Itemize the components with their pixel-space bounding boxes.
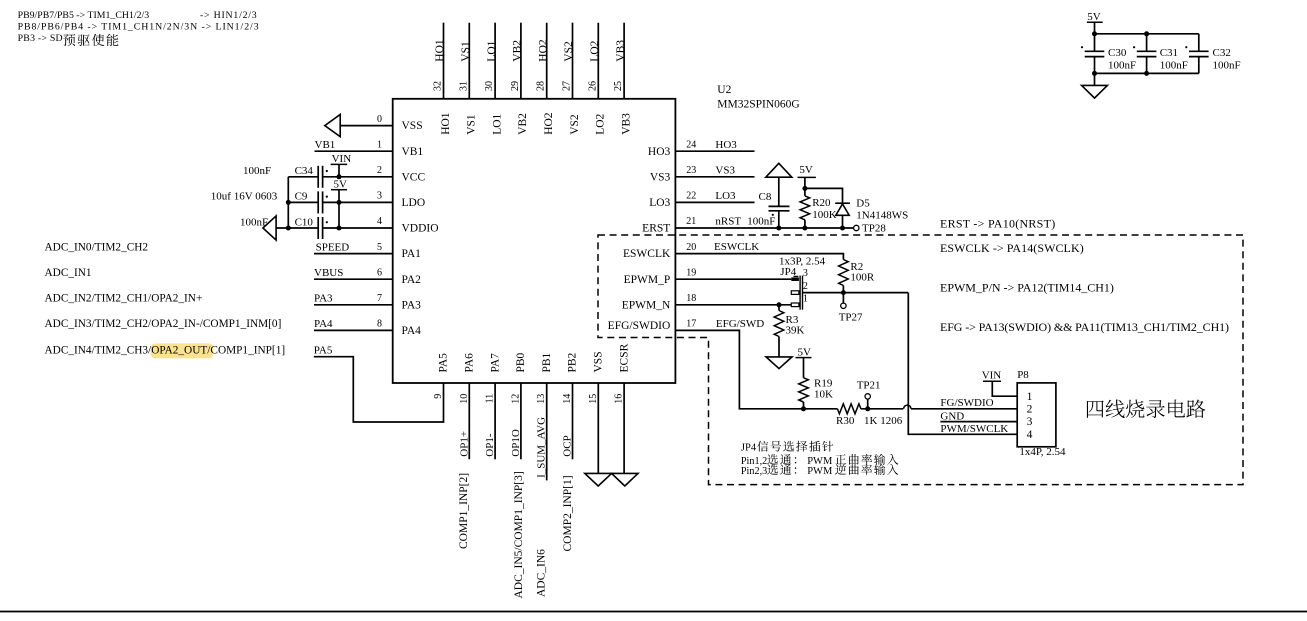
svg-text:VS1: VS1: [466, 114, 478, 135]
svg-text:25: 25: [613, 81, 624, 91]
svg-text:I_SUM_AVG: I_SUM_AVG: [536, 417, 548, 478]
svg-text:PA7: PA7: [489, 353, 501, 373]
svg-text:3: 3: [803, 268, 808, 279]
svg-text:EFG -> PA13(SWDIO) && PA11(TIM: EFG -> PA13(SWDIO) && PA11(TIM13_CH1/TIM…: [940, 320, 1229, 334]
svg-text:ESWCLK -> PA14(SWCLK): ESWCLK -> PA14(SWCLK): [940, 241, 1084, 255]
svg-text:COMP2_INP[1]: COMP2_INP[1]: [562, 475, 574, 551]
svg-text:LO3: LO3: [715, 190, 736, 202]
svg-text:5V: 5V: [798, 346, 812, 358]
svg-text:LO3: LO3: [649, 197, 670, 209]
svg-text:3: 3: [1027, 416, 1033, 428]
svg-text:PA4: PA4: [402, 325, 422, 337]
svg-text:VS2: VS2: [569, 114, 581, 135]
svg-text:ADC_IN1: ADC_IN1: [45, 267, 92, 279]
svg-text:PWM/SWCLK: PWM/SWCLK: [940, 423, 1008, 435]
svg-text:4: 4: [1027, 429, 1033, 441]
svg-text:HO1: HO1: [434, 39, 446, 62]
svg-text:ADC_IN0/TIM2_CH2: ADC_IN0/TIM2_CH2: [45, 241, 149, 253]
svg-text:5V: 5V: [799, 164, 813, 176]
svg-text:15: 15: [588, 394, 599, 404]
svg-text:30: 30: [484, 81, 495, 91]
svg-text:24: 24: [686, 139, 696, 150]
svg-text:29: 29: [510, 81, 521, 91]
svg-text:C32: C32: [1213, 47, 1231, 59]
svg-text:18: 18: [686, 293, 696, 304]
svg-text:PB9/PB7/PB5 -> TIM1_CH1/2/3: PB9/PB7/PB5 -> TIM1_CH1/2/3: [18, 10, 150, 21]
svg-text:FG/SWDIO: FG/SWDIO: [940, 397, 993, 409]
svg-text:R20: R20: [812, 197, 831, 209]
svg-text:LDO: LDO: [402, 197, 426, 209]
svg-text:EPWM_N: EPWM_N: [622, 299, 671, 311]
svg-text:VSS: VSS: [593, 351, 605, 372]
svg-text:ADC_IN3/TIM2_CH2/OPA2_IN-/COMP: ADC_IN3/TIM2_CH2/OPA2_IN-/COMP1_INM[0]: [45, 318, 282, 330]
svg-text:PA4: PA4: [314, 318, 333, 330]
svg-text:0: 0: [377, 114, 382, 125]
svg-text:2: 2: [803, 281, 808, 292]
svg-text:PB0: PB0: [515, 352, 527, 372]
svg-text:JP4: JP4: [780, 266, 796, 278]
svg-text:HO2: HO2: [543, 112, 555, 135]
svg-text:PA6: PA6: [464, 353, 476, 373]
svg-text:PA5: PA5: [314, 345, 333, 357]
svg-text:TP28: TP28: [862, 222, 886, 234]
svg-text:11: 11: [485, 394, 496, 404]
svg-text:OP1+: OP1+: [458, 431, 470, 457]
svg-text:ADC_IN2/TIM2_CH1/OPA2_IN+: ADC_IN2/TIM2_CH1/OPA2_IN+: [45, 293, 203, 305]
svg-text:OP1-: OP1-: [484, 433, 496, 457]
svg-text:TP27: TP27: [839, 312, 863, 324]
svg-text:PB3 -> SD: PB3 -> SD: [18, 33, 63, 44]
svg-text:VIN: VIN: [982, 370, 1002, 382]
svg-text:5: 5: [377, 242, 382, 253]
svg-text:20: 20: [686, 242, 696, 253]
svg-text:100R: 100R: [850, 271, 875, 283]
svg-text:VSS: VSS: [402, 120, 423, 132]
svg-text:21: 21: [686, 216, 696, 227]
svg-text:100nF: 100nF: [243, 165, 271, 177]
svg-text:100nF: 100nF: [1108, 59, 1136, 71]
svg-text:ADC_IN5/COMP1_INP[3]: ADC_IN5/COMP1_INP[3]: [513, 471, 525, 598]
svg-text:HO3: HO3: [715, 139, 737, 151]
svg-text:Pin2,3: Pin2,3: [741, 466, 767, 477]
svg-text:LO2: LO2: [595, 113, 607, 134]
svg-text:ADC_IN6: ADC_IN6: [536, 549, 548, 597]
svg-text:5V: 5V: [334, 178, 348, 190]
svg-text:R30: R30: [836, 415, 855, 427]
svg-text:VB1: VB1: [315, 139, 336, 151]
svg-text:LO1: LO1: [486, 40, 498, 61]
svg-text:C9: C9: [295, 191, 308, 203]
svg-text:C10: C10: [295, 216, 314, 228]
svg-text:VS2: VS2: [563, 41, 575, 62]
svg-text:10: 10: [459, 394, 470, 404]
svg-text:17: 17: [686, 319, 696, 330]
svg-text:PB8/PB6/PB4 -> TIM1_CH1N/2N/3N: PB8/PB6/PB4 -> TIM1_CH1N/2N/3N -> LIN1/2…: [18, 22, 259, 33]
svg-text:PA2: PA2: [402, 274, 422, 286]
svg-text:nRST: nRST: [715, 216, 741, 228]
svg-text:1K 1206: 1K 1206: [864, 415, 903, 427]
svg-text:-> HIN1/2/3: -> HIN1/2/3: [200, 10, 257, 21]
svg-text:C31: C31: [1160, 47, 1178, 59]
svg-text:EFG/SWD: EFG/SWD: [716, 318, 764, 330]
svg-text:ADC_IN4/TIM2_CH3/OPA2_OUT/COMP: ADC_IN4/TIM2_CH3/OPA2_OUT/COMP1_INP[1]: [45, 345, 286, 357]
svg-text:P8: P8: [1017, 369, 1029, 381]
svg-text:TP21: TP21: [857, 379, 881, 391]
svg-text:31: 31: [458, 81, 469, 91]
svg-text:14: 14: [562, 394, 573, 404]
svg-text:27: 27: [562, 81, 573, 91]
svg-text:MM32SPIN060G: MM32SPIN060G: [717, 99, 799, 111]
svg-text:EPWM_P/N -> PA12(TIM14_CH1): EPWM_P/N -> PA12(TIM14_CH1): [940, 281, 1114, 295]
svg-text:HO3: HO3: [648, 146, 671, 158]
svg-text:U2: U2: [717, 84, 731, 96]
svg-text:ERST -> PA10(NRST): ERST -> PA10(NRST): [940, 217, 1055, 231]
svg-text:2: 2: [1027, 404, 1033, 416]
svg-text:100nF: 100nF: [1160, 59, 1188, 71]
svg-text:VB1: VB1: [402, 146, 424, 158]
svg-text:LO2: LO2: [589, 40, 601, 61]
svg-text:PB2: PB2: [567, 352, 579, 372]
svg-text:26: 26: [587, 81, 598, 91]
svg-text:EFG/SWDIO: EFG/SWDIO: [608, 320, 671, 332]
svg-text:1x4P, 2.54: 1x4P, 2.54: [1019, 446, 1066, 458]
svg-text:VS1: VS1: [460, 41, 472, 62]
svg-text:6: 6: [377, 267, 382, 278]
svg-text:VB2: VB2: [512, 40, 524, 62]
svg-text:D5: D5: [856, 198, 870, 210]
svg-text:10K: 10K: [814, 389, 833, 401]
svg-text:EPWM_P: EPWM_P: [624, 274, 671, 286]
svg-text:OP1O: OP1O: [510, 429, 522, 457]
svg-text:12: 12: [510, 394, 521, 404]
svg-text:ECSR: ECSR: [618, 343, 630, 372]
svg-text:C34: C34: [295, 165, 314, 177]
svg-text:VBUS: VBUS: [314, 267, 343, 279]
svg-text:100nF: 100nF: [747, 216, 775, 228]
svg-text:VDDIO: VDDIO: [402, 223, 439, 235]
svg-text:LO1: LO1: [491, 113, 503, 134]
svg-text:100K: 100K: [812, 209, 837, 221]
svg-text:10uf 16V 0603: 10uf 16V 0603: [211, 191, 278, 203]
svg-text:SPEED: SPEED: [316, 241, 350, 253]
svg-text:9: 9: [433, 394, 444, 399]
svg-text:13: 13: [536, 394, 547, 404]
svg-text:1: 1: [1027, 391, 1033, 403]
svg-text:5V: 5V: [1087, 11, 1101, 23]
svg-text:16: 16: [614, 394, 625, 404]
svg-text:VS3: VS3: [650, 171, 671, 183]
svg-text:32: 32: [433, 81, 444, 91]
svg-text:HO2: HO2: [537, 39, 549, 62]
svg-text:1: 1: [377, 139, 382, 150]
svg-text:3: 3: [377, 191, 382, 202]
svg-text:C30: C30: [1108, 47, 1127, 59]
svg-text:PA3: PA3: [402, 299, 422, 311]
svg-text:VB2: VB2: [517, 113, 529, 135]
svg-text:23: 23: [686, 165, 696, 176]
svg-text:28: 28: [536, 81, 547, 91]
svg-text:ESWCLK: ESWCLK: [714, 241, 759, 253]
svg-text:1: 1: [803, 293, 808, 304]
svg-text:100nF: 100nF: [240, 216, 268, 228]
svg-text:22: 22: [686, 191, 696, 202]
svg-text:VB3: VB3: [620, 113, 632, 135]
svg-text:2: 2: [377, 165, 382, 176]
svg-text:PWM: PWM: [807, 466, 833, 477]
svg-text:GND: GND: [940, 410, 964, 422]
svg-text:VCC: VCC: [402, 171, 426, 183]
svg-text:HO1: HO1: [440, 112, 452, 135]
svg-text:PA3: PA3: [314, 293, 333, 305]
svg-text:ESWCLK: ESWCLK: [623, 248, 671, 260]
svg-text:4: 4: [377, 216, 382, 227]
svg-text:VS3: VS3: [715, 164, 735, 176]
svg-text:100nF: 100nF: [1213, 59, 1241, 71]
svg-text:COMP1_INP[2]: COMP1_INP[2]: [458, 473, 470, 549]
svg-text:VB3: VB3: [615, 40, 627, 62]
svg-text:ERST: ERST: [642, 223, 670, 235]
svg-text:PA5: PA5: [438, 353, 450, 373]
svg-text:OCP: OCP: [562, 435, 574, 456]
svg-text:1N4148WS: 1N4148WS: [856, 210, 908, 222]
svg-text:PA1: PA1: [402, 248, 422, 260]
svg-text:C8: C8: [759, 191, 772, 203]
svg-text:7: 7: [377, 293, 382, 304]
svg-text:19: 19: [686, 267, 696, 278]
svg-text:JP4: JP4: [741, 443, 757, 454]
svg-text:39K: 39K: [786, 325, 805, 337]
svg-text:VIN: VIN: [332, 153, 352, 165]
svg-text:PB1: PB1: [541, 352, 553, 372]
svg-text:8: 8: [377, 319, 382, 330]
